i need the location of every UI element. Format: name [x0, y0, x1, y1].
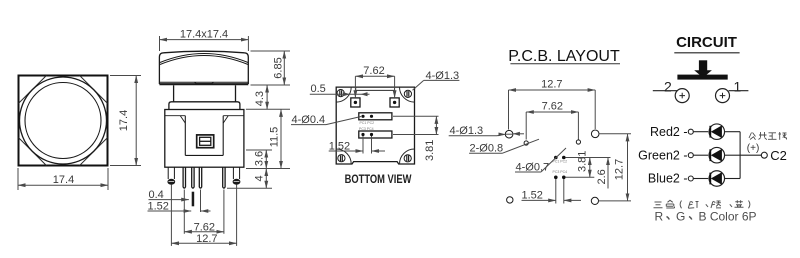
svg-text:1: 1 — [734, 79, 742, 95]
latch window — [197, 135, 214, 148]
svg-text:17.4x17.4: 17.4x17.4 — [180, 28, 228, 40]
svg-text:PC1 PC2: PC1 PC2 — [360, 121, 375, 125]
pcb holes O0.8 — [524, 140, 580, 145]
CJK: common anode label (gong gong zheng ji) — [749, 132, 787, 140]
dim 17.4 bottom of front view — [18, 168, 108, 190]
top tab between pins — [356, 87, 395, 90]
pcb bottom holes — [507, 197, 599, 205]
common bus — [740, 132, 762, 179]
button outer circle — [20, 77, 107, 164]
svg-text:2.6: 2.6 — [596, 169, 608, 184]
LED blue2 row — [648, 171, 740, 187]
pcb dim 7.62 — [526, 101, 578, 140]
inner ledge and chamfer marks — [165, 115, 186, 117]
svg-text:2: 2 — [664, 79, 672, 95]
pcb ext from small holes — [565, 158, 610, 178]
switch bar — [677, 75, 727, 80]
svg-text:3.81: 3.81 — [424, 140, 436, 161]
svg-text:4: 4 — [254, 175, 266, 181]
svg-text:7.62: 7.62 — [194, 222, 215, 234]
dim 0.4 — [149, 189, 189, 201]
dim 6.85 — [251, 51, 291, 85]
pin squares — [351, 98, 399, 107]
label 4-O0.7 pcb — [515, 148, 566, 174]
button inner circle — [25, 83, 101, 159]
svg-text:4-Ø1.3: 4-Ø1.3 — [450, 125, 484, 137]
svg-text:7.62: 7.62 — [363, 65, 384, 77]
label 2-O0.8 pcb — [469, 139, 539, 154]
corner chamfer lines — [19, 76, 108, 166]
dim 3.6 — [246, 150, 272, 169]
svg-text:6.85: 6.85 — [273, 57, 285, 78]
dim 11.5 — [269, 109, 282, 168]
svg-text:(+): (+) — [747, 143, 760, 154]
side posts with tips — [167, 167, 240, 185]
pcb dim 3.81 — [577, 151, 590, 178]
node C2 — [761, 148, 787, 163]
svg-text:17.4: 17.4 — [53, 174, 74, 186]
svg-text:1.52: 1.52 — [522, 190, 543, 202]
pcb dim 12.7 horizontal — [509, 79, 596, 130]
label 4-O1.3 bottom view — [413, 70, 460, 90]
svg-text:PC1 PC2: PC1 PC2 — [553, 160, 568, 164]
dim 3.81 bottom view — [393, 116, 439, 161]
LED green2 row — [638, 147, 740, 163]
label 4-O0.4 — [291, 114, 361, 126]
svg-text:Green2 -: Green2 - — [638, 148, 687, 162]
dim 4.3 — [246, 85, 290, 109]
button cap — [159, 51, 248, 84]
svg-text:CIRCUIT: CIRCUIT — [676, 34, 737, 51]
svg-text:B Color 6P: B Color 6P — [699, 210, 757, 224]
svg-text:11.5: 11.5 — [269, 127, 281, 148]
label 0.5 — [310, 83, 370, 96]
svg-text:12.7: 12.7 — [541, 79, 562, 91]
extension lines below side view — [171, 185, 236, 246]
tiny silk text marks — [359, 121, 374, 131]
dim 4 — [227, 169, 290, 189]
svg-text:G: G — [676, 210, 685, 224]
svg-text:7.62: 7.62 — [542, 101, 563, 113]
svg-text:Blue2 -: Blue2 - — [648, 172, 688, 186]
dim 17.4x17.4 above cap — [160, 28, 249, 51]
svg-text:12.7: 12.7 — [196, 233, 217, 245]
svg-text:17.4: 17.4 — [118, 110, 130, 131]
pcb dim 12.7 vertical — [599, 134, 632, 201]
svg-text:Red2 -: Red2 - — [650, 125, 688, 139]
svg-text:R: R — [655, 210, 664, 224]
dim 7.62 side view — [184, 222, 224, 234]
CJK bottom note line1: san se (hong, lv, lan) — [654, 200, 750, 208]
inner plunger guide U — [184, 116, 186, 156]
front view square body — [19, 76, 108, 166]
pcb heading — [508, 48, 620, 65]
actuator arrow — [694, 60, 712, 77]
svg-text:3.81: 3.81 — [577, 151, 589, 172]
pcb hole O1.3 top-left — [505, 130, 513, 138]
terminal 1 — [716, 79, 749, 103]
dim 7.62 bottom view — [355, 65, 394, 98]
svg-text:12.7: 12.7 — [614, 159, 626, 180]
slots — [359, 113, 392, 138]
label 4-O1.3 pcb — [449, 125, 524, 137]
corner rivet circles — [337, 90, 411, 162]
terminal 2 — [653, 79, 689, 103]
main body — [165, 110, 244, 168]
neck below cap — [174, 85, 236, 102]
svg-text:P.C.B. LAYOUT: P.C.B. LAYOUT — [508, 48, 620, 65]
svg-text:3.6: 3.6 — [254, 151, 266, 166]
pcb hole O1.3 top-right — [591, 130, 599, 138]
bottom note line2: R,G,B Color 6P — [655, 210, 757, 224]
pcb dim 1.52 — [522, 179, 582, 204]
dim 1.52 side view — [148, 201, 211, 213]
dim 1.52 bottom view — [329, 136, 385, 154]
dim 12.7 side view — [171, 233, 236, 245]
LED red2 row — [650, 124, 740, 140]
dim 17.4 right of front view — [110, 76, 141, 166]
svg-text:0.5: 0.5 — [311, 83, 326, 95]
bottom view body outline — [336, 87, 414, 164]
corner arcs — [336, 87, 414, 164]
pcb small holes O0.7 — [554, 156, 566, 179]
pcb dim 2.6 — [596, 158, 608, 189]
svg-text:PC3 PC4: PC3 PC4 — [359, 127, 374, 131]
svg-text:C2: C2 — [770, 148, 787, 163]
svg-text:4.3: 4.3 — [254, 91, 266, 106]
collar — [169, 102, 240, 110]
legs — [183, 167, 225, 188]
circuit heading — [674, 34, 739, 53]
svg-text:BOTTOM VIEW: BOTTOM VIEW — [345, 173, 413, 186]
svg-text:PC3 PC4: PC3 PC4 — [553, 170, 568, 174]
